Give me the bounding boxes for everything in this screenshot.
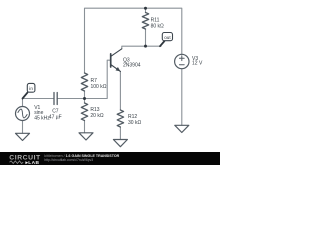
labels	[34, 18, 203, 126]
wire input node horizontal	[23, 99, 55, 107]
wire collector node horizontal	[122, 46, 161, 49]
node dot base	[83, 97, 86, 100]
wire V3 to ground	[181, 69, 183, 126]
wire V1 to ground	[22, 121, 24, 134]
node flag in	[23, 83, 35, 98]
transistor Q3 bar and leads	[111, 49, 122, 72]
wire R12 to ground	[119, 127, 121, 140]
wire R11 top lead	[145, 8, 147, 12]
resistor R7	[81, 73, 87, 91]
svg-text:in: in	[29, 86, 33, 91]
svg-text:▸LAB: ▸LAB	[25, 160, 40, 165]
transistor Q3 emitter arrow	[116, 67, 121, 71]
node dot collector	[144, 45, 147, 48]
svg-text:12 V: 12 V	[192, 61, 203, 67]
svg-text:http://circuitlab.com/c/7nuW6p: http://circuitlab.com/c/7nuW6pv3	[44, 158, 93, 162]
svg-text:30 kΩ: 30 kΩ	[128, 120, 141, 126]
ground under R12	[113, 140, 127, 147]
footer bar	[0, 152, 220, 165]
node flag out	[160, 33, 173, 47]
node dot VCC rail	[144, 7, 147, 10]
svg-text:100 kΩ: 100 kΩ	[91, 84, 107, 90]
wire emitter to R12	[119, 71, 121, 110]
source V1	[16, 107, 30, 121]
wire R13 to ground	[84, 121, 86, 133]
source V3	[175, 54, 189, 68]
ground under V3	[175, 125, 189, 132]
svg-text:47 µF: 47 µF	[49, 115, 62, 121]
svg-text:2N3904: 2N3904	[123, 63, 141, 69]
wire top rail VCC	[85, 8, 182, 73]
svg-text:R12: R12	[128, 114, 137, 120]
wire R11 bottom lead	[145, 29, 147, 46]
resistor R11	[142, 13, 148, 29]
svg-text:out: out	[164, 35, 171, 40]
ground under V1	[16, 133, 30, 140]
svg-text:20 kΩ: 20 kΩ	[90, 113, 103, 119]
wire base node to transistor	[57, 60, 111, 98]
resistor R13	[81, 103, 87, 121]
capacitor C7	[54, 93, 57, 105]
ground under R13	[79, 133, 93, 140]
wire R7 bottom lead	[84, 91, 86, 103]
resistor R12	[117, 110, 123, 127]
svg-text:80 kΩ: 80 kΩ	[151, 23, 164, 29]
